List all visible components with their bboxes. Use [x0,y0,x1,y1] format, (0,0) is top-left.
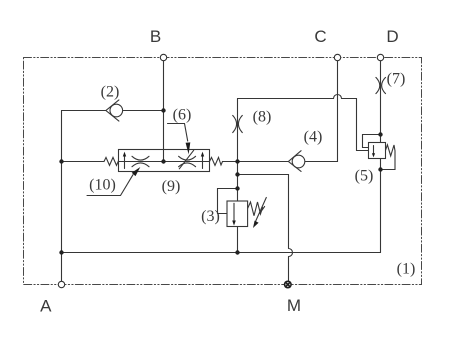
relief valve 5 body [369,143,386,159]
spring of valve 3 [248,202,263,216]
junction node pilot 5 [378,132,382,136]
spring left of 9 [104,157,119,165]
wire pilot of valve 5 [363,135,381,148]
wire C down and to check valve 4 [238,61,338,162]
junction node B-C2 [161,108,165,112]
enclosure boundary (1) [24,58,422,285]
wire M branch with hop over rail [238,175,293,282]
svg-text:M: M [287,296,301,315]
up arrow left in 9 [123,152,126,169]
leader of label 10 [87,167,140,196]
port M plugged [285,281,292,288]
svg-text:D: D [386,27,398,46]
leader of label 6 [168,124,191,155]
wire left vertical A riser [61,111,63,282]
junction node left-rail [59,250,63,254]
check valve C4 [288,151,304,172]
wire valve 3 vertical [237,162,239,253]
svg-text:(1): (1) [397,261,416,278]
wire bottom rail [62,252,381,254]
port D [377,54,383,60]
svg-text:(4): (4) [304,129,323,146]
wire spring drain of valve 5 [381,151,396,170]
junction node 3-rail [235,250,239,254]
wire B down [163,61,165,162]
up arrow right in 9 [201,152,204,169]
wire top line to valve 5 with hop over C [238,95,369,151]
junction node M branch [235,172,239,176]
svg-text:(9): (9) [162,178,181,195]
spring of valve 5 [386,145,396,156]
svg-text:(3): (3) [201,208,220,225]
arrow in valve 3 [232,203,236,225]
junction node pilot 3 [235,186,239,190]
wire left to check valve 2 [62,110,164,112]
adjustment arrow of valve 3 [253,198,266,229]
junction node main-8 [235,159,239,163]
spring right of 9 [210,157,223,165]
fixed orifice 10 in 9 [132,156,149,166]
port A [58,281,64,287]
svg-text:(5): (5) [355,168,374,185]
wire throttle 8 vertical [237,99,239,162]
variable orifice 6 in 9 [179,150,196,169]
svg-text:B: B [150,27,161,46]
wire pilot of valve 3 [218,189,238,214]
junction node left-main [59,159,63,163]
svg-text:(7): (7) [387,71,406,88]
port B [160,54,166,60]
relief valve 3 body [227,201,248,227]
svg-text:(6): (6) [173,107,192,124]
svg-text:(10): (10) [89,177,116,194]
svg-text:(2): (2) [101,84,120,101]
arrow in valve 5 [372,146,375,158]
flow regulator body 9 [119,150,210,172]
junction node drain 5 [378,167,382,171]
throttle 8 symbol [233,115,243,132]
throttle 7 symbol [376,77,386,93]
svg-text:(8): (8) [253,109,272,126]
port C [334,54,340,60]
junction node B-main [161,159,165,163]
check valve C2 [106,100,123,121]
svg-text:C: C [314,27,326,46]
wire valve 5 outlet down [380,159,382,253]
wire main line through valve 9 [62,161,238,163]
wire D down [380,61,382,143]
svg-text:A: A [40,297,52,316]
